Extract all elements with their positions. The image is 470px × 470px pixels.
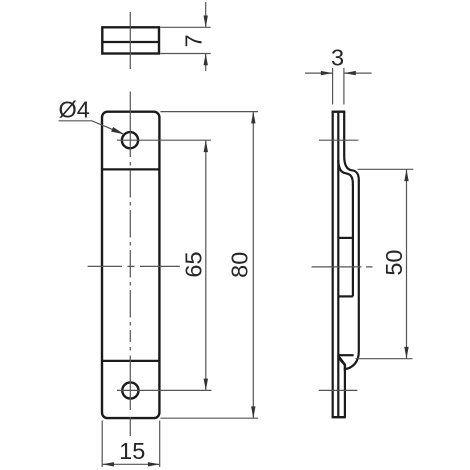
hole bottom horizontal centerline / 65 ext: [117, 389, 212, 391]
svg-text:3: 3: [331, 45, 344, 71]
dim 50 ext bottom: [356, 358, 413, 360]
side outer left line A: [332, 112, 334, 418]
dim 65 line: [205, 140, 207, 390]
dim 3 line right segment: [344, 72, 372, 74]
side horizontal centerline: [312, 266, 376, 268]
side inner box bottom line H2: [338, 295, 353, 297]
dim 7 extension top: [160, 26, 210, 28]
side inner offset line C': [352, 184, 354, 296]
top view thickness line: [101, 41, 160, 43]
dim 50 line: [406, 169, 408, 358]
dim 80 ext bottom: [160, 417, 258, 419]
hole top: [122, 132, 138, 148]
dim 15 ext right: [159, 421, 161, 468]
dim 50 arrow top: [404, 169, 408, 181]
dim 3 arrow left: [321, 71, 333, 75]
dim 15 arrow right: [148, 462, 160, 466]
hole bottom: [122, 382, 138, 398]
bend line bottom: [102, 360, 159, 362]
dim 3 ext right: [343, 68, 345, 105]
dim 7 arrow top: [204, 16, 208, 28]
dim 3 arrow right: [344, 71, 356, 75]
vertical centerline: [129, 92, 131, 437]
side bottom jog wedge fill: [338, 356, 345, 368]
side inner box top line H1: [338, 237, 353, 239]
dim 80 line: [252, 112, 254, 419]
dim 65 arrow top: [204, 140, 208, 152]
svg-text:7: 7: [181, 34, 207, 47]
dim 80 arrow bottom: [251, 406, 255, 418]
top view centerline: [129, 12, 131, 69]
plate outline: [102, 112, 159, 418]
dim 65 arrow bottom: [204, 379, 208, 391]
side bottom cap: [332, 416, 346, 418]
dim 80 ext top: [160, 111, 258, 113]
dim 3 ext left: [332, 68, 334, 105]
side inner left line B: [337, 112, 339, 418]
dim 3 line left segment: [305, 72, 333, 74]
svg-text:50: 50: [381, 250, 407, 276]
side bottom jog wedge diagonal: [339, 356, 345, 370]
dim 50 arrow bottom: [404, 347, 408, 359]
dim 7 extension bottom: [160, 53, 210, 55]
svg-text:80: 80: [227, 252, 253, 278]
hole top horizontal centerline / 65 ext: [117, 139, 211, 141]
svg-text:65: 65: [181, 251, 207, 277]
dim 7 line lower tail: [205, 54, 207, 72]
dim 15 line: [102, 463, 160, 465]
dim 15 arrow left: [102, 462, 114, 466]
side hole mark bottom: [319, 389, 358, 391]
svg-text:Ø4: Ø4: [59, 97, 90, 123]
side inner jog curve top from B to C': [338, 160, 353, 185]
front horizontal mid centerline: [88, 265, 180, 267]
bend line top: [102, 168, 159, 170]
side top cap: [332, 110, 346, 112]
dim 15 ext left: [101, 421, 103, 468]
svg-text:15: 15: [119, 438, 145, 464]
dim 7 line upper tail: [205, 2, 207, 27]
side right top edge C with S-curve to D: [344, 112, 359, 418]
dim 50 ext top: [358, 168, 414, 170]
side hole mark top: [319, 139, 358, 141]
side bottom jog horizontal H3: [338, 354, 353, 356]
leader arrowhead: [111, 127, 124, 134]
leader Ø4: [59, 121, 125, 135]
dim 80 arrow top: [251, 112, 255, 124]
dim 7 arrow bottom: [204, 54, 208, 66]
top view outline: [102, 27, 159, 53]
